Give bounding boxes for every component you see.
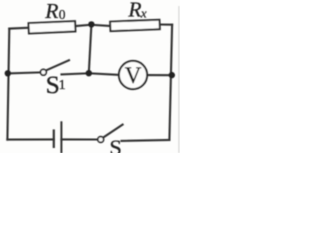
svg-text:S: S: [109, 135, 122, 153]
svg-text:0: 0: [59, 7, 66, 22]
svg-text:1: 1: [59, 78, 66, 93]
svg-text:x: x: [140, 5, 147, 20]
svg-text:R: R: [127, 0, 141, 22]
svg-text:V: V: [125, 63, 142, 88]
svg-text:R: R: [44, 0, 58, 23]
